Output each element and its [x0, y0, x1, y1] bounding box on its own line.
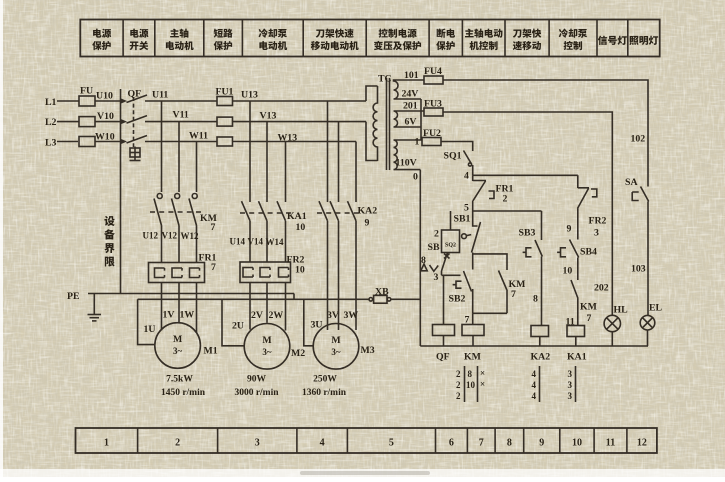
svg-text:10: 10	[563, 266, 573, 277]
wire L2	[57, 121, 79, 123]
wire node 10	[577, 258, 579, 281]
wire node 1 to SQ1	[441, 142, 473, 152]
wire SA to EL	[647, 202, 649, 316]
fuse FU2	[422, 138, 441, 146]
svg-text:6: 6	[449, 438, 454, 449]
svg-text:W10: W10	[95, 132, 115, 143]
wire drop to KA2 contact	[327, 101, 329, 202]
wire W11	[145, 141, 217, 143]
svg-text:0: 0	[413, 172, 418, 183]
function label 冷却泵控制	[559, 29, 588, 38]
svg-text:7: 7	[587, 313, 592, 324]
function label 短路保护	[214, 29, 233, 38]
switch box SQ2	[442, 230, 460, 253]
function label 主轴电动机	[170, 29, 188, 38]
motor M1	[155, 323, 201, 369]
function row divider 9	[504, 20, 506, 57]
fuse FU4	[424, 76, 443, 84]
svg-text:7.5kW: 7.5kW	[166, 375, 193, 385]
svg-text:V11: V11	[173, 110, 189, 121]
function row divider 1	[122, 20, 124, 57]
motor M3	[313, 324, 359, 370]
svg-text:4: 4	[532, 380, 537, 390]
svg-text:U12: U12	[143, 231, 159, 241]
svg-text:3: 3	[568, 369, 573, 379]
svg-text:103: 103	[631, 264, 646, 275]
QF contact arrow	[121, 119, 127, 124]
switch SA	[632, 187, 649, 202]
svg-text:×: ×	[480, 368, 485, 378]
svg-text:3W: 3W	[344, 310, 359, 321]
svg-text:SB3: SB3	[519, 228, 536, 239]
svg-text:M1: M1	[204, 346, 218, 357]
wire FR2 to motor M2	[266, 283, 268, 323]
svg-text:FU4: FU4	[424, 66, 442, 77]
column divider 1	[137, 428, 139, 453]
relay coil KA1	[567, 326, 585, 337]
svg-text:HL: HL	[614, 305, 629, 316]
svg-text:U11: U11	[152, 90, 168, 101]
svg-text:SA: SA	[625, 177, 638, 188]
wire V11	[145, 121, 217, 123]
wire drop to KM main contact	[196, 142, 198, 193]
svg-text:2: 2	[456, 391, 461, 401]
svg-text:KA2: KA2	[531, 352, 551, 363]
column divider 4	[346, 428, 348, 453]
column divider 5	[435, 428, 437, 453]
svg-text:V13: V13	[260, 111, 277, 122]
contactor coil KM	[462, 325, 484, 336]
transformer TC primary winding	[373, 86, 377, 161]
svg-text:U14: U14	[230, 237, 246, 247]
function label 主轴电动机控制	[465, 29, 503, 38]
FR1 NC contact	[473, 175, 494, 211]
wire to QF coil	[443, 275, 445, 324]
thermal relay FR2	[240, 262, 291, 283]
wire node 2	[450, 211, 452, 230]
KM self-hold contact	[473, 254, 508, 313]
svg-text:4: 4	[532, 369, 537, 379]
svg-text:3U: 3U	[311, 320, 323, 331]
wire 3U jog	[304, 299, 313, 346]
svg-text:SQ2: SQ2	[445, 243, 456, 249]
transformer TC primary feed V	[366, 122, 378, 161]
svg-text:201: 201	[403, 101, 418, 112]
function row divider 7	[428, 20, 430, 57]
function label 断电保护	[437, 29, 455, 38]
svg-text:W11: W11	[189, 131, 208, 142]
column divider 8	[523, 428, 525, 453]
KM linkage dashes	[150, 211, 204, 213]
svg-text:3~: 3~	[331, 347, 341, 357]
KM interlock contact	[571, 280, 578, 326]
transformer secondary 24V	[394, 80, 425, 99]
relay KA1 contact	[277, 201, 286, 221]
wire 101 to EL branch	[443, 80, 648, 187]
svg-text:3: 3	[594, 228, 599, 239]
svg-text:SB1: SB1	[454, 214, 471, 225]
svg-text:24V: 24V	[402, 89, 419, 100]
svg-text:10: 10	[466, 380, 476, 390]
node 8 stub	[421, 264, 438, 271]
svg-text:KA1: KA1	[287, 211, 307, 222]
function row divider 4	[241, 20, 243, 57]
svg-text:3000 r/min: 3000 r/min	[234, 388, 279, 398]
function label 电源开关	[130, 29, 148, 38]
svg-text:FU1: FU1	[216, 87, 234, 98]
svg-text:1450 r/min: 1450 r/min	[161, 388, 206, 398]
column divider 2	[217, 428, 219, 453]
fuse FU	[79, 96, 95, 106]
svg-text:PE: PE	[67, 291, 80, 302]
svg-text:3~: 3~	[262, 347, 272, 357]
svg-text:W12: W12	[181, 231, 200, 241]
function label 电源保护	[93, 29, 111, 38]
svg-text:6V: 6V	[405, 117, 417, 128]
function row divider 3	[203, 20, 205, 57]
svg-text:10: 10	[296, 222, 306, 233]
svg-text:10: 10	[295, 265, 305, 276]
svg-text:4: 4	[532, 391, 537, 401]
svg-text:SB: SB	[428, 242, 440, 253]
svg-text:SB4: SB4	[580, 247, 597, 258]
function label 照明灯	[629, 36, 658, 45]
node 3 link	[442, 271, 461, 275]
relay KA2 contact	[330, 201, 339, 221]
svg-text:90W: 90W	[247, 375, 267, 385]
wire node 9	[577, 209, 579, 240]
transformer TC primary feed U	[366, 86, 378, 101]
work lamp EL	[640, 315, 655, 330]
column divider 11	[626, 428, 628, 453]
svg-text:2V: 2V	[251, 310, 263, 321]
function row outline	[80, 20, 659, 57]
fuse FU	[79, 137, 95, 147]
svg-text:W13: W13	[278, 133, 298, 144]
control 0 rail	[419, 170, 421, 346]
function label 控制电源变压及保护	[379, 29, 417, 38]
start button SB4	[557, 240, 579, 258]
thermal relay FR1	[149, 263, 205, 283]
svg-text:7: 7	[511, 289, 516, 300]
svg-text:2: 2	[434, 229, 439, 240]
svg-text:EL: EL	[649, 303, 663, 314]
svg-text:FR2: FR2	[589, 216, 607, 227]
contactor KM main contact	[175, 194, 180, 199]
stop button SB1	[472, 211, 481, 253]
signal lamp HL	[604, 315, 620, 331]
contactor KM main contact	[157, 194, 162, 199]
svg-text:L2: L2	[45, 117, 57, 128]
svg-text:4: 4	[320, 438, 325, 449]
svg-text:1: 1	[415, 137, 420, 148]
svg-text:102: 102	[631, 134, 646, 145]
ground symbol	[93, 294, 95, 315]
svg-text:2W: 2W	[269, 310, 284, 321]
svg-text:1U: 1U	[144, 324, 156, 335]
svg-text:7: 7	[211, 262, 216, 273]
svg-text:L1: L1	[45, 97, 57, 108]
svg-text:9: 9	[539, 438, 544, 449]
function row divider 8	[461, 20, 463, 57]
svg-text:M3: M3	[361, 345, 375, 356]
relay KA2 contact	[319, 201, 328, 221]
boundary label 设备界限	[104, 216, 114, 226]
svg-text:2: 2	[175, 438, 180, 449]
start button SB3 branch	[541, 211, 543, 240]
svg-text:U13: U13	[241, 90, 258, 101]
relay KA2 contact	[348, 201, 357, 221]
control bottom rail	[420, 345, 648, 347]
column number row	[76, 428, 657, 453]
svg-text:4: 4	[464, 171, 469, 182]
column divider 3	[296, 428, 298, 453]
wire W13	[233, 141, 357, 143]
FR1 heater element	[155, 268, 165, 278]
function row divider 2	[154, 20, 156, 57]
svg-text:3V: 3V	[327, 310, 339, 321]
svg-text:FU3: FU3	[424, 99, 442, 110]
equipment boundary line	[120, 89, 122, 294]
fuse FU3	[424, 108, 443, 116]
svg-text:M: M	[331, 335, 340, 346]
connector XB	[369, 298, 373, 302]
QF release element	[130, 148, 140, 157]
svg-text:KA2: KA2	[358, 206, 378, 217]
function label 冷却泵电动机	[259, 29, 288, 38]
svg-text:5: 5	[464, 203, 469, 214]
svg-text:L3: L3	[45, 138, 57, 149]
svg-text:202: 202	[594, 283, 609, 294]
wire U13	[233, 100, 367, 102]
undervoltage release coil QF	[433, 325, 455, 336]
svg-text:110V: 110V	[396, 158, 417, 169]
KA2 contact usage table	[539, 366, 541, 402]
KA1 linkage dashes	[240, 212, 292, 214]
wire drop to KA2 contact 3	[355, 142, 357, 203]
svg-text:2: 2	[503, 194, 508, 205]
svg-text:1: 1	[104, 438, 109, 449]
wire FR2 to motor M2	[249, 283, 251, 330]
svg-text:1360 r/min: 1360 r/min	[302, 388, 347, 398]
fuse FU1	[217, 117, 233, 126]
svg-text:KA1: KA1	[567, 352, 587, 363]
FR2 heater element	[243, 268, 253, 278]
KM contact usage table	[464, 366, 466, 402]
function row divider 11	[596, 20, 598, 57]
FR1 heater element	[190, 268, 200, 278]
svg-text:10: 10	[572, 438, 582, 449]
wire FR1 to motor M1	[196, 283, 198, 334]
button SB blade	[442, 253, 450, 272]
secondary common vertical	[420, 99, 422, 140]
svg-text:11: 11	[606, 438, 615, 449]
wire drop to KA1 contact	[285, 142, 287, 203]
svg-text:3~: 3~	[173, 346, 183, 356]
relay KA1 contact	[242, 201, 251, 221]
wire drop to KM main contact	[161, 101, 163, 192]
fuse FU	[79, 117, 95, 127]
KA1 contact usage table	[575, 366, 577, 402]
svg-text:1V: 1V	[163, 310, 175, 321]
column divider 7	[494, 428, 496, 453]
wire 2U jog	[222, 299, 244, 346]
function label 刀架快速移动	[513, 29, 542, 38]
contactor KM main contact	[192, 194, 197, 199]
svg-text:×: ×	[480, 379, 485, 389]
FR1 heater element	[172, 268, 182, 278]
function row divider 6	[365, 20, 367, 57]
wire FR1 to motor M1	[178, 283, 180, 323]
wire U11	[145, 100, 217, 102]
motor M2	[244, 324, 290, 370]
wire 1U jog	[138, 299, 155, 344]
QF linkage dashed line	[133, 97, 135, 147]
relay coil KA2	[531, 326, 549, 337]
start button SB3	[523, 240, 543, 257]
svg-text:QF: QF	[436, 352, 450, 363]
svg-text:9: 9	[567, 224, 572, 235]
svg-text:8: 8	[533, 294, 538, 305]
function label 信号灯	[598, 36, 627, 45]
svg-text:M: M	[262, 335, 271, 346]
svg-text:FU: FU	[80, 86, 93, 97]
svg-text:2U: 2U	[232, 321, 244, 332]
wire FR2 to motor M2	[285, 283, 287, 331]
svg-text:1W: 1W	[180, 310, 195, 321]
wire V13	[233, 121, 367, 123]
svg-text:KM: KM	[580, 302, 597, 313]
wire drop to KA2 contact	[338, 122, 340, 202]
column divider 10	[593, 428, 595, 453]
svg-text:3: 3	[568, 391, 573, 401]
transformer secondary 6V	[394, 111, 425, 127]
svg-text:11: 11	[566, 317, 575, 328]
wire drop to KA1 contact	[249, 101, 251, 202]
switch SQ1	[464, 151, 472, 164]
wire node 4 rail	[473, 165, 578, 175]
svg-text:SQ1: SQ1	[444, 151, 462, 162]
fuse FU1	[217, 97, 233, 106]
svg-text:9: 9	[365, 218, 370, 229]
svg-text:V12: V12	[162, 231, 178, 241]
svg-text:XB: XB	[375, 287, 389, 298]
svg-text:M2: M2	[291, 348, 305, 359]
svg-text:101: 101	[404, 70, 419, 81]
svg-text:8: 8	[421, 255, 426, 266]
svg-text:KM: KM	[464, 352, 481, 363]
svg-text:2: 2	[456, 380, 461, 390]
svg-text:7: 7	[465, 315, 470, 326]
svg-text:SB2: SB2	[449, 294, 466, 305]
wire SB3 to KA2 coil	[541, 257, 543, 326]
wire L3	[57, 141, 78, 143]
wire FR1 to motor M1	[161, 283, 163, 331]
column divider 9	[559, 428, 561, 453]
transformer core	[386, 78, 388, 170]
transformer secondary 110V	[394, 140, 423, 170]
wire 201 to HL branch	[443, 112, 612, 315]
svg-text:3: 3	[568, 380, 573, 390]
QF contact arrow	[121, 98, 127, 103]
svg-text:U10: U10	[96, 91, 113, 102]
svg-text:W14: W14	[266, 237, 285, 247]
function row divider 12	[627, 20, 629, 57]
wire drop to KM main contact	[178, 122, 180, 192]
svg-text:3: 3	[255, 438, 260, 449]
FR2 heater element	[279, 268, 289, 278]
FR2 NC contact	[578, 175, 597, 208]
svg-text:QF: QF	[128, 89, 142, 100]
start button SB2	[453, 271, 472, 292]
svg-text:2: 2	[456, 369, 461, 379]
svg-text:12: 12	[637, 438, 647, 449]
svg-text:V10: V10	[97, 111, 114, 122]
wire SB2 to node 7	[472, 289, 474, 313]
relay KA1 contact	[259, 201, 268, 221]
svg-text:8: 8	[507, 438, 512, 449]
circuit breaker QF blade 2	[127, 116, 148, 124]
function row divider 10	[548, 20, 550, 57]
circuit breaker QF blade 3	[127, 136, 148, 144]
function label 刀架快速移动电动机	[316, 29, 354, 38]
svg-text:V14: V14	[248, 237, 264, 247]
fuse FU1	[217, 137, 233, 146]
wire L1	[57, 100, 79, 102]
wire SB1 to SB2	[472, 253, 474, 270]
svg-text:8: 8	[468, 369, 473, 379]
circuit breaker QF blade 1	[127, 95, 148, 103]
svg-text:5: 5	[389, 438, 394, 449]
bus wire to XB	[138, 298, 369, 300]
svg-text:250W: 250W	[313, 375, 337, 385]
function row divider 5	[302, 20, 304, 57]
wire node 5 rail	[473, 210, 542, 212]
column divider 6	[466, 428, 468, 453]
wire XB to control rail	[391, 298, 421, 300]
svg-text:3: 3	[434, 272, 439, 283]
svg-text:FU2: FU2	[423, 128, 441, 139]
QF contact arrow	[121, 139, 127, 144]
FR2 heater element	[260, 268, 270, 278]
svg-text:TC: TC	[378, 74, 392, 85]
svg-text:7: 7	[479, 438, 484, 449]
svg-text:M: M	[173, 334, 182, 345]
PE line	[88, 293, 294, 295]
wire drop to KA1 contact	[266, 122, 268, 202]
KA2 linkage dashes	[317, 212, 363, 214]
svg-text:7: 7	[211, 222, 216, 233]
